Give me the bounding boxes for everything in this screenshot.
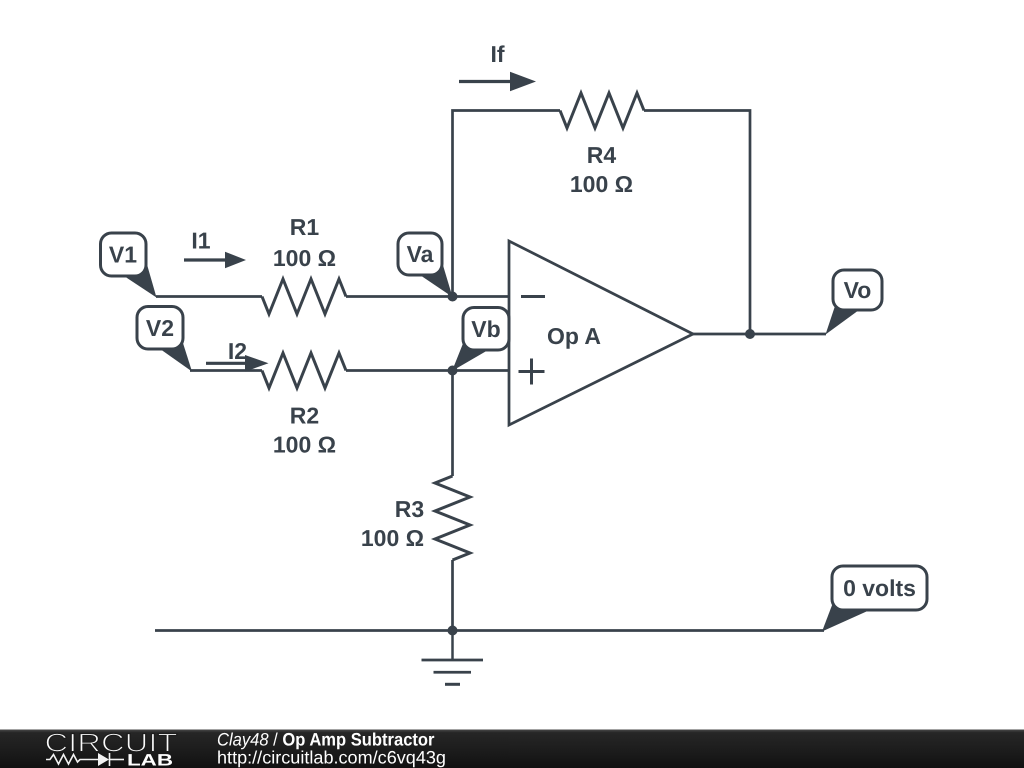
- wire ground rail: [155, 629, 824, 632]
- wire op-amp output to Vo: [693, 333, 826, 336]
- svg-text:Vb: Vb: [471, 316, 500, 342]
- current arrow I1: [184, 252, 246, 269]
- svg-text:Op A: Op A: [547, 323, 601, 349]
- resistor R1: [262, 279, 346, 314]
- current arrow If: [459, 72, 536, 92]
- node output: [745, 329, 755, 339]
- wire R3 to ground rail: [451, 560, 454, 631]
- svg-text:R2: R2: [290, 403, 319, 429]
- wire V1 to R1: [156, 295, 262, 298]
- wire R4 right then down to output node: [644, 111, 750, 335]
- resistor R4: [560, 93, 644, 128]
- svg-text:V1: V1: [109, 242, 137, 268]
- op-amp inverting input minus sign: [521, 295, 545, 298]
- op-amp U1 triangle: [509, 241, 693, 425]
- flag label 0 volts: [822, 566, 927, 632]
- svg-text:R4: R4: [587, 142, 617, 168]
- svg-text:100 Ω: 100 Ω: [273, 432, 336, 458]
- flag label Va: [398, 233, 453, 297]
- svg-text:100 Ω: 100 Ω: [361, 525, 424, 551]
- svg-text:I1: I1: [191, 228, 210, 254]
- svg-text:V2: V2: [146, 315, 174, 341]
- resistor R2: [262, 353, 346, 388]
- CircuitLab logo resistor squiggle and diode: [46, 753, 124, 766]
- svg-text:http://circuitlab.com/c6vq43g: http://circuitlab.com/c6vq43g: [217, 748, 446, 768]
- svg-text:LAB: LAB: [127, 752, 173, 768]
- wire V2 to R2: [190, 369, 262, 372]
- wire node Va up to feedback and over to R4: [453, 111, 561, 297]
- node ground rail: [448, 626, 458, 636]
- svg-text:0 volts: 0 volts: [843, 575, 916, 601]
- svg-text:Vo: Vo: [844, 277, 872, 303]
- current arrow I2: [206, 355, 269, 372]
- svg-text:I2: I2: [228, 338, 247, 364]
- wire R1 to op-amp inverting input (node Va): [346, 295, 509, 298]
- ground: [422, 631, 484, 685]
- svg-text:Va: Va: [407, 241, 434, 267]
- wire node Vb down to R3: [451, 371, 454, 477]
- svg-text:R1: R1: [290, 214, 320, 240]
- svg-text:100 Ω: 100 Ω: [570, 171, 633, 197]
- svg-text:R3: R3: [395, 496, 424, 522]
- flag label V1: [101, 233, 157, 298]
- flag label Vo: [826, 270, 883, 335]
- wire R2 to op-amp non-inverting input (node Vb): [346, 369, 509, 372]
- op-amp non-inverting input plus sign: [519, 359, 545, 385]
- flag label Vb: [452, 308, 509, 372]
- flag label V2: [137, 307, 192, 372]
- node Vb: [448, 366, 458, 376]
- svg-text:100 Ω: 100 Ω: [273, 245, 336, 271]
- node Va: [448, 292, 458, 302]
- resistor R3: [435, 476, 470, 560]
- svg-text:If: If: [490, 41, 504, 67]
- svg-text:Clay48 / Op Amp Subtractor: Clay48 / Op Amp Subtractor: [217, 730, 435, 750]
